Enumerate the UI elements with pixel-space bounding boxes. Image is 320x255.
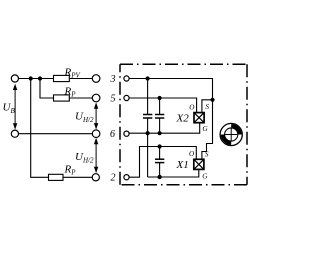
wire row A	[18, 78, 53, 80]
terminal 5	[124, 95, 129, 100]
terminal 3	[124, 76, 129, 81]
svg-text:O: O	[189, 104, 195, 112]
svg-text:G: G	[202, 125, 208, 133]
wire line1 vertical left	[31, 79, 49, 178]
svg-text:RP: RP	[64, 164, 77, 177]
svg-text:RP: RP	[64, 86, 77, 99]
igniter X1 body	[194, 159, 204, 169]
wire bottom net to X1.G pin	[148, 170, 199, 177]
svg-text:3: 3	[110, 74, 116, 85]
terminal circle mid output	[92, 130, 100, 138]
wire net5 to X2.O pin	[129, 98, 196, 113]
wire X2.S pin	[202, 100, 213, 113]
terminal 2	[124, 175, 129, 180]
svg-text:G: G	[202, 172, 208, 180]
terminal circle RP output	[92, 94, 100, 102]
terminal 6	[124, 131, 129, 136]
svg-text:X1: X1	[176, 159, 189, 171]
spark indicator symbol	[220, 123, 242, 145]
wire net3 top	[129, 79, 212, 100]
terminal circle input top-left	[11, 75, 18, 82]
svg-text:6: 6	[110, 129, 115, 140]
junction dot net3-cap1	[146, 76, 150, 80]
voltage annotation UB arrow	[13, 84, 17, 130]
resistor RPV	[54, 75, 70, 81]
capacitor C3	[155, 147, 164, 178]
wire RPV to output	[69, 78, 92, 80]
capacitor C2	[155, 98, 164, 133]
wire row C	[18, 133, 92, 135]
svg-text:S: S	[205, 150, 209, 158]
svg-text:UH/2: UH/2	[75, 151, 94, 165]
junction dot net2-cap3	[158, 144, 162, 148]
svg-text:S: S	[205, 103, 209, 111]
svg-text:X2: X2	[176, 112, 190, 124]
enclosure dash-dot border	[120, 64, 247, 185]
voltage annotation UH/2 lower arrow	[94, 138, 98, 173]
voltage annotation UH/2 upper arrow	[94, 102, 98, 129]
junction dot A2	[38, 76, 42, 80]
junction dot cap3 bottom	[157, 175, 161, 179]
wire RP bottom to output	[63, 176, 93, 178]
svg-text:RPV: RPV	[64, 67, 81, 80]
svg-text:O: O	[189, 150, 195, 158]
wire net6 to X2.G pin	[129, 123, 200, 134]
wire main vertical to X1.S pin	[202, 100, 213, 160]
junction dot net6-cap1	[146, 131, 150, 135]
terminal circle input mid-left	[11, 130, 18, 137]
junction dot net5-cap2	[158, 96, 162, 100]
igniter X2 body	[194, 113, 204, 123]
svg-text:2: 2	[111, 173, 116, 184]
wire RP to output	[69, 97, 92, 99]
capacitor C1	[143, 79, 152, 178]
svg-text:UB: UB	[3, 102, 16, 116]
resistor RP bottom	[49, 174, 64, 180]
junction dot net6-cap2	[158, 131, 162, 135]
wire line2 to RP	[40, 79, 54, 99]
terminal circle RPV output	[92, 75, 100, 83]
svg-text:UH/2: UH/2	[75, 111, 94, 125]
resistor RP	[54, 95, 70, 101]
wire net2 to X1.O pin	[129, 147, 196, 178]
junction dot A1	[29, 76, 33, 80]
svg-text:5: 5	[111, 94, 116, 105]
terminal circle bottom output	[92, 174, 99, 181]
junction dot net3-S	[210, 98, 214, 102]
